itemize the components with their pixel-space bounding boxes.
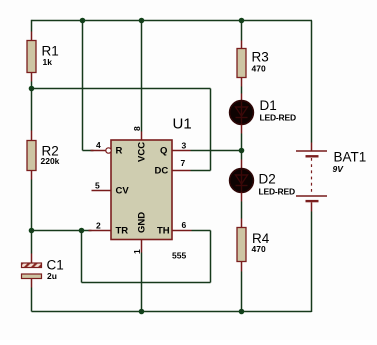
wire battery negative to ground rail [311,212,313,313]
diode D2 LED-RED [230,160,254,202]
svg-text:GND: GND [137,212,148,233]
wire R2 bottom to TR node [31,180,33,231]
svg-text:R3: R3 [252,50,269,65]
wire node to DC riser [32,88,211,90]
svg-text:555: 555 [172,251,186,261]
resistor R3 [237,41,246,87]
svg-text:9V: 9V [333,164,345,174]
svg-text:6: 6 [182,220,187,230]
wire battery positive from top rail [311,21,313,143]
junction LED midpoint node [239,148,245,154]
wire R2 top [31,89,33,131]
svg-text:LED-RED: LED-RED [260,113,296,123]
junction R1/R2/DC node [29,86,35,92]
svg-text:D2: D2 [259,172,276,187]
wire node to D2 [241,151,243,160]
op-amp U1 555 timer body [89,132,192,253]
svg-text:TR: TR [116,226,129,237]
svg-text:Q: Q [160,146,167,157]
wire reset branch [83,21,94,151]
diode D1 LED-RED [230,94,254,134]
wire GND pin to rail [141,253,143,312]
svg-text:BAT1: BAT1 [334,150,367,165]
junction VCC pin branch on top rail [139,18,145,24]
svg-text:8: 8 [132,126,142,131]
wire C1 bottom to ground rail [31,288,33,312]
svg-text:U1: U1 [173,116,192,133]
junction TR/TH loop node [79,228,85,234]
wire VCC top rail [32,20,313,22]
svg-text:CV: CV [116,186,130,197]
wire top-left corner drop to R1 [31,20,33,32]
svg-text:4: 4 [96,140,101,150]
wire TH loop [82,231,211,283]
junction GND pin on rail [139,309,145,315]
svg-text:TH: TH [157,226,170,237]
wire VCC pin branch [141,21,143,132]
svg-text:1: 1 [132,249,142,254]
battery BAT1 [296,143,327,212]
junction R4 on rail [239,309,245,315]
resistor R2 [27,131,36,180]
junction R3 branch on top rail [239,18,245,24]
svg-text:5: 5 [95,181,100,191]
svg-text:1k: 1k [43,57,53,67]
svg-text:3: 3 [182,141,187,151]
capacitor C1 [22,254,42,288]
wire R3 to D1 [241,87,243,94]
svg-text:2: 2 [96,221,101,231]
svg-text:7: 7 [181,158,186,168]
svg-text:470: 470 [252,64,266,74]
wire D2 to R4 [241,202,243,219]
junction reset branch on top rail [80,18,86,24]
svg-text:R: R [116,146,123,157]
wire R1 bottom to node [31,82,33,89]
svg-text:470: 470 [252,244,266,254]
junction R2/C1 node [29,228,35,234]
wire Q output to LED node [191,150,242,152]
wire ground bottom rail [32,311,312,313]
wire TR net horizontal [32,230,92,232]
svg-text:2u: 2u [47,271,57,281]
svg-text:D1: D1 [260,98,277,113]
svg-text:DC: DC [155,166,169,177]
wire C1 top [31,231,33,254]
resistor R4 [237,219,246,272]
wire R3 top [241,22,243,41]
svg-text:VCC: VCC [137,142,148,162]
resistor R1 [27,32,36,82]
wire R4 to ground rail [241,272,243,312]
svg-text:220k: 220k [41,156,60,166]
wire D1 to LED node [241,134,243,151]
wire DC riser [191,89,211,171]
svg-text:LED-RED: LED-RED [259,187,295,197]
